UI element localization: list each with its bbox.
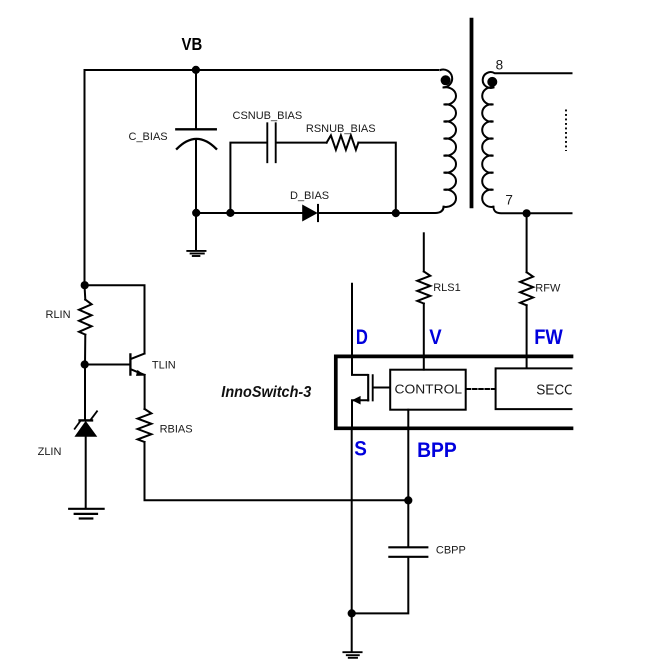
svg-text:CBPP: CBPP [436, 545, 466, 557]
wire CBPP to bottom node [352, 557, 409, 613]
mosfet Q1 source lead with arrow [352, 400, 368, 426]
wire RBIAS to BPP rail [145, 442, 409, 500]
node TLIN base junction [81, 360, 89, 368]
IC box InnoSwitch-3 outline [336, 356, 572, 428]
ground below ZLIN [69, 509, 103, 519]
svg-text:RLS1: RLS1 [433, 282, 461, 294]
secondary continuation dotted line [565, 110, 567, 152]
capacitor C_BIAS top plate [176, 128, 216, 130]
transformer secondary winding [483, 72, 572, 88]
svg-text:RLIN: RLIN [46, 309, 71, 321]
mosfet Q1 gate lead [374, 387, 390, 389]
node S ground junction [348, 609, 356, 617]
mosfet Q1 drain wire D [352, 284, 367, 375]
ground below C_BIAS [187, 251, 205, 256]
svg-text:FW: FW [534, 325, 563, 349]
wire snubber left branch [230, 143, 266, 213]
resistor RSNUB_BIAS [327, 135, 359, 149]
wire node to diode [196, 212, 303, 214]
wire C_BIAS bottom lead [195, 140, 197, 250]
resistor RFW with leads [526, 213, 528, 272]
box CONTROL [390, 370, 466, 410]
wire cap to resistor [277, 142, 327, 144]
resistor RLIN with leads [79, 300, 92, 335]
svg-text:V: V [429, 325, 442, 349]
dashed link CONTROL to SECONDARY [467, 388, 495, 390]
wire left rail down [85, 285, 145, 353]
svg-text:RBIAS: RBIAS [160, 424, 193, 436]
node snubber cap branch junction [226, 209, 234, 217]
wire node to TLIN base [85, 364, 129, 366]
ground bottom [343, 652, 361, 658]
capacitor C_BIAS curved plate [177, 139, 216, 149]
mosfet Q1 channel and gate bars [367, 375, 369, 400]
resistor RLS1 with leads [423, 233, 425, 271]
svg-text:CONTROL: CONTROL [395, 382, 463, 397]
node BPP junction [404, 496, 412, 504]
zener ZLIN [84, 365, 86, 420]
svg-text:TLIN: TLIN [152, 359, 176, 371]
svg-text:VB: VB [182, 34, 203, 54]
diode D_BIAS [303, 205, 317, 220]
node C_BIAS bottom junction [192, 209, 200, 217]
node FW winding pin 7 junction [523, 209, 531, 217]
primary winding polarity dot [441, 75, 451, 85]
svg-text:BPP: BPP [417, 438, 457, 462]
box SECONDARY (cut off) [496, 368, 572, 409]
transformer primary winding [440, 70, 452, 88]
wire bottom node to ground [351, 613, 353, 651]
node snubber resistor branch junction [392, 209, 400, 217]
resistor RBIAS [138, 409, 152, 442]
wire VB top rail [85, 70, 439, 285]
svg-text:D_BIAS: D_BIAS [290, 190, 329, 202]
svg-text:D: D [356, 325, 368, 349]
node VB junction [192, 66, 200, 74]
wire C_BIAS top lead [195, 70, 197, 128]
svg-text:8: 8 [496, 58, 504, 73]
svg-text:C_BIAS: C_BIAS [129, 131, 168, 143]
capacitor CSNUB_BIAS plates [267, 123, 275, 162]
node RLIN top junction [81, 281, 89, 289]
wire resistor to corner, down to node [358, 143, 395, 213]
transistor TLIN [129, 354, 131, 374]
svg-text:RSNUB_BIAS: RSNUB_BIAS [306, 123, 376, 135]
svg-text:CSNUB_BIAS: CSNUB_BIAS [233, 110, 303, 122]
wire BPP down [407, 410, 409, 547]
wire diode to node [318, 212, 396, 214]
svg-text:7: 7 [505, 193, 513, 208]
capacitor CBPP [389, 547, 427, 557]
svg-text:ZLIN: ZLIN [38, 446, 62, 458]
wire S pin down [351, 428, 353, 613]
svg-text:RFW: RFW [535, 283, 561, 295]
svg-text:S: S [354, 436, 367, 460]
transformer core [470, 18, 474, 208]
secondary winding polarity dot [487, 77, 497, 87]
svg-text:InnoSwitch-3: InnoSwitch-3 [221, 384, 311, 401]
